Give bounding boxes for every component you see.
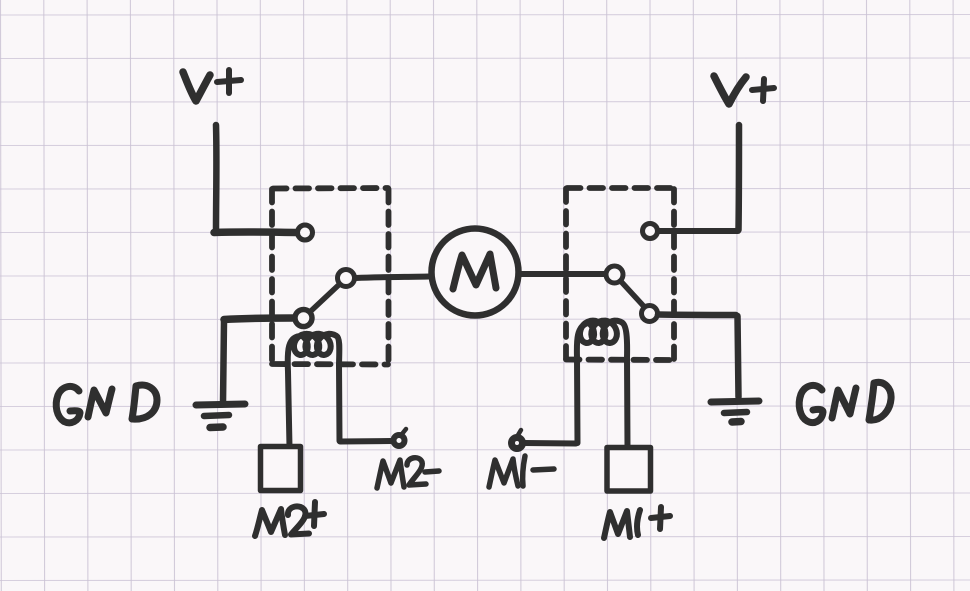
- wire V+ left vertical: [213, 125, 220, 231]
- contact NO left (circle): [295, 310, 312, 327]
- wire V+ right vertical: [735, 125, 742, 230]
- contact NC left (circle): [298, 225, 313, 240]
- label M1-: [489, 456, 554, 487]
- wire coil right to M1- terminal: [524, 440, 576, 447]
- motor letter M: [453, 254, 496, 289]
- power label V+ (right): [714, 76, 774, 104]
- wire NC right to V+: [658, 228, 738, 234]
- wire COM left to motor: [356, 277, 429, 279]
- label M1+: [604, 507, 670, 538]
- wire GND left horizontal from NO contact: [224, 318, 294, 320]
- contact NO right (circle): [642, 306, 658, 322]
- contact COM right (circle): [606, 266, 623, 283]
- motor M1/M2 circle: [432, 229, 519, 316]
- wire NO right to GND: [658, 311, 736, 318]
- relay K2 dashed box (left): [272, 188, 389, 365]
- wire motor to COM right: [519, 271, 605, 277]
- terminal M2- (circle): [394, 435, 405, 446]
- contact COM left (circle): [338, 270, 355, 287]
- label GND right: [799, 382, 891, 422]
- relay K2 coil (left): [288, 334, 340, 447]
- ground symbol right: [711, 401, 759, 422]
- wire GND left vertical: [223, 321, 224, 403]
- terminal block M1+ (square): [607, 448, 651, 492]
- wire V+ left horizontal to NC contact: [214, 228, 296, 236]
- terminal M1- (circle): [512, 438, 523, 449]
- relay K1 coil (right): [577, 321, 628, 447]
- power label V+ (left): [183, 70, 241, 101]
- label M2-: [377, 458, 439, 488]
- terminal block M2+ (square): [261, 447, 301, 491]
- contact NC right (circle): [643, 224, 658, 239]
- label M2+: [255, 502, 324, 536]
- ground symbol left: [196, 404, 245, 428]
- switch arm left relay: [305, 280, 344, 317]
- switch arm right relay: [616, 276, 649, 312]
- wire coil left to M2- terminal: [340, 438, 391, 445]
- terminal M1- tail: [518, 430, 521, 435]
- relay K1 dashed box (right): [566, 188, 674, 360]
- wire GND right vertical: [738, 316, 739, 397]
- label GND left: [56, 385, 157, 423]
- terminal M2- tail: [402, 429, 406, 434]
